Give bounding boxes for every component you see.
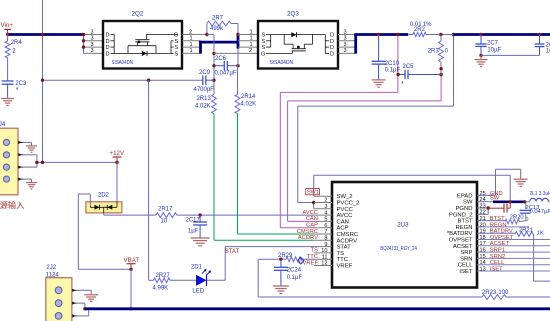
svg-text:10: 10 [161,219,168,225]
resistor 2R4 2 [5,35,10,82]
svg-text:SRN: SRN [460,256,472,262]
pins 2J2 ticks [72,289,77,318]
svg-text:2C9: 2C9 [199,70,211,76]
svg-text:3: 3 [344,29,347,35]
label 2R29 value [299,260,303,266]
capacitor 2C17 1uF [193,215,207,237]
svg-text:2U3: 2U3 [397,222,409,229]
label 2R4 [11,40,23,46]
label 2R2 [414,27,426,33]
wire 2J4 pins 2,3 to +12V rail [23,155,117,167]
ground 2C3 [1,97,14,105]
wire 2C6 right to source bar [237,49,239,66]
connector 2J2 [46,278,72,321]
svg-text:CAN: CAN [337,219,349,225]
svg-text:2Q3: 2Q3 [287,11,299,18]
label 2C10 [385,61,400,67]
svg-text:CMSRC: CMSRC [297,229,318,235]
svg-text:S: S [175,45,179,51]
label 2C5 star [401,81,404,88]
wire pin 17 row [477,245,550,247]
svg-text:1: 1 [190,42,193,48]
svg-text:4700pF: 4700pF [194,87,215,93]
ground 2C7 [475,55,488,66]
diode 2D2 dual [86,194,122,213]
label 2C24 [287,268,302,274]
label 2C13 [526,205,540,211]
junction PVCC pins tie [312,201,315,204]
svg-text:2R21: 2R21 [519,228,533,234]
junction PGND [487,206,490,209]
svg-text:D: D [106,45,110,51]
svg-text:3: 3 [91,29,94,35]
junction x=36.9 rail [35,161,38,164]
svg-text:TTC: TTC [337,257,349,263]
label 2J2 [46,265,56,271]
wire pin 13 row [477,270,550,272]
svg-text:电源输入: 电源输入 [0,200,24,210]
power symbol Vin+ [1,22,14,35]
label STAT [225,249,240,255]
svg-text:OVPSET: OVPSET [449,238,473,244]
wire SW1 net over chip [314,175,511,202]
label 2C7 value [487,48,501,54]
wire +12V down to 2D2 [116,162,118,201]
capacitor 2C10 0.1uF [372,35,386,80]
svg-text:2C3: 2C3 [15,81,27,87]
label 2C9 value [194,87,215,93]
label 2R29 [278,253,293,259]
label 2R27 value [153,286,169,292]
wire TTC loop down and right [258,259,482,297]
label 2C5 [403,64,415,70]
wire 2J2 pin2 to bus [77,303,85,309]
label 2U3 [397,222,409,229]
ground 2C24 [273,286,289,294]
svg-text:PGND: PGND [455,206,472,212]
wire pin 15 row [477,257,550,259]
junction 2C7 tap [479,33,482,36]
wire LED cathode [207,279,226,281]
ground 2J4 pin4 [26,179,37,189]
resistor 2R20 0 [505,219,520,224]
wire TTC row [258,258,314,260]
svg-text:10µF: 10µF [487,48,501,54]
svg-text:2R4: 2R4 [11,40,23,46]
svg-text:SRP: SRP [460,250,472,256]
label 499k value [210,26,224,32]
svg-text:BTST: BTST [490,216,505,222]
wire 2Q3 right pin stubs [338,35,356,54]
svg-text:3: 3 [344,42,347,48]
LED 2D1 [196,269,211,286]
label 2C9 [199,70,211,76]
svg-text:2C6: 2C6 [215,56,227,62]
capacitor 2C9 4700pF [203,76,214,85]
label 2R17 value [161,219,168,225]
svg-text:0.1µF: 0.1µF [385,67,401,73]
wire PVCC net [298,35,454,209]
junction 2C7 bottom [479,54,482,57]
label power input chinese [0,200,24,210]
svg-text:1µF: 1µF [188,229,199,235]
label 2C13 value [530,209,550,215]
svg-text:2R27: 2R27 [156,273,171,279]
svg-text:2R2: 2R2 [414,27,426,33]
svg-text:SW_2: SW_2 [337,194,353,200]
svg-text:ISET: ISET [490,266,503,272]
wire gate drive vertical x=214 [207,35,214,95]
wire 2J2 pin1 to ground [77,289,92,291]
svg-text:1124: 1124 [46,273,60,279]
junction 2C14 tap [538,33,541,36]
label 2R3 value [445,49,449,55]
label 2L1 [530,191,550,197]
svg-text:3: 3 [91,42,94,48]
junction gate 2Q2 / 2R7 [205,33,208,36]
wire 2Q3 left pin stubs [214,35,258,54]
junction 2C6 right [236,64,239,67]
label 2R23 value [498,290,509,296]
net labels chip left [297,210,319,266]
svg-text:VBAT: VBAT [124,257,140,264]
svg-text:PGND_2: PGND_2 [449,212,473,218]
junction VBAT on bus [129,307,132,310]
resistor 2R3 0 [439,35,444,75]
label 2R20 [510,215,524,221]
svg-text:SISA04DN: SISA04DN [270,60,294,66]
wire vertical input feed at x=42.5 [42,0,44,162]
svg-text:2J2: 2J2 [46,265,56,271]
net labels chip right [490,191,514,273]
svg-text:3: 3 [344,48,347,54]
svg-text:20: 20 [480,222,486,228]
wire CAP net purple [280,35,398,228]
svg-text:2D2: 2D2 [98,193,110,199]
junction x=42.5 rail [41,161,44,164]
junction y=80.2 x=148.6 LED branch [147,79,150,82]
svg-text:VREF: VREF [303,260,319,266]
svg-text:G: G [261,51,265,57]
wire 2R27 to LED [170,279,196,281]
label 2D2 [98,193,110,199]
ground EPAD [514,169,528,186]
svg-text:1K: 1K [537,231,544,237]
wire 2C14 bottom to ground node [481,54,540,56]
label 2C7 [487,41,499,47]
resistor 2R21 1K [515,232,533,237]
svg-text:D: D [330,45,334,51]
chip left pin names [337,194,360,269]
junction +12V node [115,161,118,164]
svg-text:2C24: 2C24 [287,268,302,274]
svg-text:TTC: TTC [307,254,318,260]
svg-text:0.1µF: 0.1µF [287,275,303,281]
svg-text:S: S [175,51,179,57]
label 2R3 [428,49,440,55]
svg-text:2R3: 2R3 [428,49,440,55]
svg-text:4.02K: 4.02K [241,102,257,108]
svg-text:ACSET: ACSET [453,244,473,250]
ground 2C17 [191,237,210,246]
svg-text:SW: SW [490,196,500,202]
wire 2Q2 drain pin fan [84,35,104,54]
label 2R21 value [537,231,544,237]
capacitor 2C5 [398,70,441,79]
svg-text:2Q2: 2Q2 [132,11,144,18]
resistor 2R13 4.02K [212,94,217,114]
svg-text:STAT: STAT [225,249,240,255]
wire 2J2 pin3 to bus [77,309,89,316]
label 2C3 star [16,87,19,94]
svg-text:19: 19 [480,229,486,235]
junction 2R2 right / 2R3 tap [439,33,442,36]
svg-text:CMSRC: CMSRC [337,232,359,238]
power symbol VBAT [124,257,140,269]
svg-text:2C7: 2C7 [487,41,499,47]
wire 2D2 output [104,213,156,215]
svg-text:0.047µF: 0.047µF [215,71,237,77]
pin numbers 2Q3 right 3,3,3,3 [344,29,347,54]
transistor 2Q2 SISA04DN [103,21,182,69]
label 2C14 value [546,49,550,55]
label 2C10 value [385,67,401,73]
label 2C17 [186,218,201,224]
resistor 2R17 10 [156,213,177,218]
label 2R13 value [195,104,211,110]
svg-text:EPAD: EPAD [457,193,473,199]
wire Vin+ thick input bus [8,33,84,36]
junction SW x=524.6 [523,200,526,203]
label 2R21 [519,228,533,234]
wire CAN net purple [288,75,442,222]
svg-text:2D1: 2D1 [191,265,203,271]
wire LED feed vertical x=148.6 [148,80,150,280]
junction 2J2 pin2 bus [83,307,86,310]
junction 2C5 right [439,73,442,76]
svg-text:VREF: VREF [337,264,353,270]
svg-text:1: 1 [190,48,193,54]
junction 2C17 node [198,213,201,216]
label 2J2 value [46,273,60,279]
wire thick battery bus [85,307,550,310]
wire LED row left [149,279,154,281]
connector 2J4 [0,128,18,195]
svg-text:1: 1 [190,36,193,42]
svg-text:2R13: 2R13 [197,96,212,102]
wire thick bus 2Q3 output to 2R2 [354,35,408,54]
wire thick source bus jog between 2Q2 and 2Q3 [199,35,238,54]
junction 2C9 right [212,79,215,82]
label 2J4 [0,122,6,128]
pin numbers 2Q3 left 1,1,1,2 [249,29,253,54]
junction VBAT node [129,268,132,271]
svg-text:S: S [262,33,266,39]
wire ACDRV green [214,114,314,241]
svg-text:CAP: CAP [306,223,318,229]
capacitor 2C3 [2,81,14,97]
svg-text:4.99K: 4.99K [153,286,169,292]
resistor 2R27 4.99K [154,278,171,283]
junction 2Q2 fan 1 [82,33,85,36]
wire 2R17 to AVCC pin [177,214,314,216]
svg-text:SISA04DN: SISA04DN [112,60,134,66]
pins 2J4 ticks [18,141,23,181]
wire EPAD GND [477,169,521,195]
svg-text:3: 3 [344,36,347,42]
junction 2C5 left [396,73,399,76]
svg-text:2J4: 2J4 [0,122,6,128]
capacitor 2C14 edge [535,35,545,56]
svg-text:AVCC: AVCC [337,213,354,219]
chip left pin numbers [321,198,327,267]
resistor 2R14 4.02K [235,66,240,114]
svg-text:3: 3 [91,48,94,54]
wire SW thick [493,201,526,204]
label 2R20 value [525,217,528,223]
svg-text:2: 2 [189,29,192,35]
svg-text:ACDRV: ACDRV [337,238,358,244]
svg-text:2: 2 [249,48,252,54]
capacitor snubber PGND-SW [488,202,510,213]
op-amp U chip 2U3 BQ24133 box [332,182,477,288]
svg-text:CELL: CELL [458,263,473,269]
svg-text:STAT: STAT [337,245,352,251]
svg-text:2R23: 2R23 [482,290,497,296]
svg-text:SRN2: SRN2 [490,254,505,260]
resistor 2R29 [286,257,301,262]
svg-text:3: 3 [91,36,94,42]
wire PGND pins tie [477,208,488,214]
wire input sense y=80.2 [43,79,203,81]
resistor 2R7 499k gate pull-up [207,21,238,34]
label 2Q2 [132,11,144,18]
label 2C17 value [188,229,199,235]
svg-text:1: 1 [250,36,253,42]
junction 2Q2 fan 3 [82,45,85,48]
wire VBAT to 2D2 [78,194,131,269]
svg-text:G: G [174,33,178,39]
svg-text:REGN: REGN [490,222,507,228]
svg-text:D: D [330,33,334,39]
svg-text:D: D [330,39,334,45]
svg-text:2C17: 2C17 [186,218,201,224]
svg-text:ACP: ACP [337,226,349,232]
svg-text:CAN: CAN [306,216,318,222]
svg-text:*BATDRV: *BATDRV [447,231,473,237]
ground 2J2 pin1 [84,290,98,301]
junction 2C24 node [279,258,282,261]
label 2R14 value [241,102,257,108]
svg-text:SW: SW [463,200,473,206]
label 2R2 rating [410,22,432,28]
label 2C24 value [287,275,303,281]
svg-text:SW1: SW1 [307,190,319,196]
svg-text:S: S [175,39,179,45]
svg-text:2C5: 2C5 [403,64,415,70]
svg-text:TS: TS [311,248,319,254]
svg-text:CELL: CELL [490,260,505,266]
svg-text:S: S [262,45,266,51]
junction y=80.2 x=42.5 [41,79,44,82]
junction CAP tap on bus [396,33,399,36]
ground 2J4 pin1 [26,142,37,152]
label 2C3 [15,81,27,87]
junction 2C6 left [212,64,215,67]
power symbol +12V [110,150,125,162]
svg-text:AVCC: AVCC [302,210,318,216]
svg-text:25: 25 [480,191,486,197]
wire STAT net [225,247,314,281]
svg-text:D: D [106,33,110,39]
svg-text:D: D [106,39,110,45]
resistor 2R2 0.01 sense [408,32,453,36]
junction PVCC tap on bus [452,33,455,36]
wire BTST stub [477,220,505,222]
svg-text:499k: 499k [210,26,224,32]
wire pin 14 row [477,264,550,266]
ground 2C10 [372,79,386,87]
junction input bus x=42.5 [41,33,44,36]
junction 2C10 tap [377,33,380,36]
wire 2R21 down and right [533,234,550,281]
svg-text:ACSET: ACSET [490,241,510,247]
label 2R7 [212,15,224,21]
label 2R27 [156,273,171,279]
svg-text:PVCC: PVCC [337,207,354,213]
capacitor 2C7 10uF [475,35,486,56]
label LED [192,289,204,295]
junction 2Q2 fan 2 [82,39,85,42]
wire 2J4 pin1 to ground [23,141,32,143]
svg-text:0.047µF: 0.047µF [530,209,550,215]
wire 2Q2 right pin stubs [182,35,207,54]
junction gate 2Q3 tie [212,52,215,55]
label 2D1 [191,265,203,271]
svg-text:PVCC_2: PVCC_2 [337,201,360,207]
wire BATDRV stub [477,232,515,234]
resistor 2R23 100 [482,295,506,300]
label 2C14 [546,43,550,49]
svg-text:2L1 3.3uH: 2L1 3.3uH [530,191,550,197]
svg-text:TS: TS [337,251,345,257]
junction SW x=510.2 [509,200,512,203]
svg-text:1: 1 [250,42,253,48]
svg-text:*: * [401,81,404,88]
svg-text:ISET: ISET [459,269,472,275]
net label SW1 [306,189,320,196]
junction 2R3 bottom [439,67,442,70]
svg-text:100: 100 [498,290,509,296]
svg-text:1: 1 [250,29,253,35]
svg-text:S: S [262,39,266,45]
label BQ24133_RGY_24 [380,246,417,252]
offpage marker VREF [298,257,305,264]
svg-text:+12V: +12V [110,150,125,157]
chip left pin stubs [314,196,332,265]
label 2R17 [158,207,173,213]
capacitor 2C13 bootstrap [520,210,532,213]
chip right pin numbers [480,191,486,273]
inductor 2L1 3.3uH [526,198,550,202]
svg-text:LED: LED [192,289,204,295]
svg-text:10µF: 10µF [546,49,550,55]
svg-text:ACDRV: ACDRV [298,235,318,241]
chip right pin names [447,193,473,275]
svg-text:2R7: 2R7 [212,15,224,21]
svg-text:Vin+: Vin+ [1,22,14,29]
svg-text:REGN: REGN [455,225,472,231]
